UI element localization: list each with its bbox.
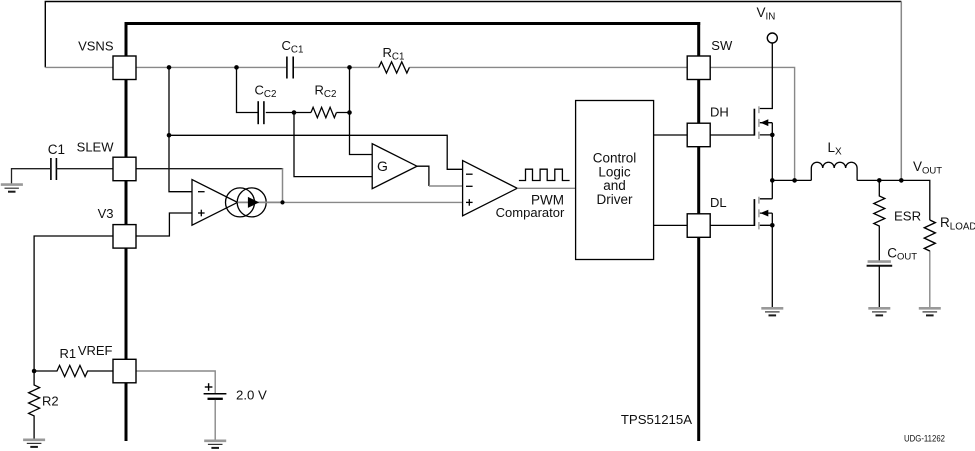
resistor ESR xyxy=(874,180,885,261)
wire DL pin to Q2 gate xyxy=(710,224,754,226)
node switch node SW junction xyxy=(770,178,775,183)
capacitor COUT xyxy=(867,262,893,266)
wire Q2 source to ground xyxy=(771,225,773,307)
capacitor CC2 xyxy=(258,101,264,124)
svg-text:SLEW: SLEW xyxy=(77,139,115,154)
wire SW pin to switch node xyxy=(710,67,794,180)
svg-text:UDG-11262: UDG-11262 xyxy=(904,434,945,444)
node VOUT sense junction xyxy=(899,178,904,183)
wire Q1 source to switch node xyxy=(771,135,773,181)
node CC1-RC1 junction xyxy=(347,65,352,70)
wire control logic to DH pin xyxy=(654,134,688,136)
terminal VIN xyxy=(767,33,777,43)
resistor R2 xyxy=(29,371,40,439)
IC TPS51215A boundary left edge xyxy=(125,22,128,441)
svg-text:DL: DL xyxy=(710,195,727,210)
wire control logic to DL pin xyxy=(654,224,688,226)
capacitor CC1 xyxy=(287,57,293,79)
wire comparator output to control logic xyxy=(517,187,575,189)
node feedback line junction xyxy=(167,133,172,138)
wire VIN to Q1 drain xyxy=(760,43,773,108)
svg-text:Driver: Driver xyxy=(597,192,634,207)
svg-text:R2: R2 xyxy=(42,393,59,408)
svg-text:C1: C1 xyxy=(48,142,65,157)
wire G output to comparator second minus input xyxy=(417,166,429,186)
node Q1 source-body junction xyxy=(770,133,775,138)
wire V3 to R1 R2 divider xyxy=(34,236,113,371)
wire VREF to 2.0V reference xyxy=(136,371,215,393)
ground under battery xyxy=(204,441,226,448)
node RC2-CC1 junction xyxy=(347,110,352,115)
pin VSNS xyxy=(113,56,136,80)
capacitor C1 xyxy=(51,158,57,180)
wire feedback to PWM comparator minus input xyxy=(169,135,463,169)
wire RC1 to SW pin xyxy=(409,66,687,68)
node CC2 branch junction B xyxy=(234,65,239,70)
pin VREF xyxy=(113,359,136,383)
svg-text:DH: DH xyxy=(710,105,729,120)
svg-text:VREF: VREF xyxy=(78,343,113,358)
pin DL xyxy=(687,214,710,238)
transistor Q2 low-side MOSFET xyxy=(754,197,772,230)
svg-text:VSNS: VSNS xyxy=(78,38,114,53)
svg-text:V3: V3 xyxy=(98,206,114,221)
ground under RLOAD xyxy=(919,308,941,315)
ground under R2 xyxy=(23,440,45,447)
IC TPS51215A boundary top edge xyxy=(125,22,701,25)
op-amp gm error amplifier xyxy=(192,180,238,226)
svg-text:and: and xyxy=(603,178,626,193)
wire VOUT sense vertical right xyxy=(900,2,902,181)
control logic block U1 xyxy=(576,101,654,260)
wire VSNS input from loop xyxy=(45,66,113,68)
wire CC1 to RC1 xyxy=(294,66,380,68)
ground under C1 xyxy=(1,185,23,192)
wire V3 to gm amp plus input xyxy=(136,213,192,236)
transistor Q1 high-side MOSFET xyxy=(754,106,772,139)
node CC2-RC2 junction xyxy=(292,110,297,115)
svg-text:Control: Control xyxy=(593,151,637,166)
node SW pin wire junction xyxy=(792,178,797,183)
op-amp U-PWM comparator xyxy=(463,161,518,216)
wire DH pin to Q1 gate xyxy=(710,134,754,136)
wire Q2 drain to switch node xyxy=(771,180,773,198)
wire CC2 branch down xyxy=(237,67,259,112)
wire switch node row xyxy=(772,179,811,181)
op-amp G gain block xyxy=(372,144,417,189)
inductor LX xyxy=(811,162,857,180)
node VOUT ESR branch junction xyxy=(877,178,882,183)
node R1-R2 divider junction xyxy=(32,369,37,374)
svg-text:Comparator: Comparator xyxy=(496,205,565,220)
svg-text:2.0 V: 2.0 V xyxy=(236,388,267,403)
node ramp junction xyxy=(280,200,284,204)
wire inductor to output node xyxy=(857,180,930,220)
wire CC2 to RC2 xyxy=(266,112,311,114)
IC TPS51215A boundary right edge xyxy=(697,22,700,441)
resistor RLOAD xyxy=(924,220,935,308)
resistor RC1 xyxy=(379,62,410,73)
svg-text:SW: SW xyxy=(711,38,733,53)
wire C1 to SLEW pin xyxy=(12,169,114,184)
wire VSNS row to compensation network xyxy=(136,66,286,68)
wire VSNS branch down to feedback line xyxy=(169,67,192,191)
svg-text:ESR: ESR xyxy=(894,209,921,224)
svg-text:TPS51215A: TPS51215A xyxy=(621,412,692,427)
node PWM square wave symbol xyxy=(519,169,570,180)
wire CC2-RC2 node down to G lower input xyxy=(294,113,372,177)
wire RC2 to CC1 junction vertical xyxy=(337,67,373,154)
ground under COUT xyxy=(868,308,890,315)
resistor RC2 xyxy=(311,107,336,117)
wire COUT to ground xyxy=(878,266,880,308)
pin SLEW xyxy=(113,157,136,181)
pin DH xyxy=(687,123,710,147)
ground under Q2 xyxy=(761,308,783,315)
pin SW xyxy=(687,56,710,80)
svg-text:Logic: Logic xyxy=(598,164,631,179)
svg-text:G: G xyxy=(377,158,388,174)
node VSNS feedback junction A xyxy=(167,65,172,70)
battery V1 2.0V xyxy=(204,383,227,399)
svg-text:R1: R1 xyxy=(60,346,77,361)
node Q2 source-body junction xyxy=(770,223,775,228)
wire ramp node to PWM comparator plus input xyxy=(283,201,463,203)
wire outer top feedback loop xyxy=(45,2,901,68)
pin V3 xyxy=(113,225,136,249)
wire battery to ground xyxy=(214,400,216,440)
wire SLEW to ramp node xyxy=(136,168,283,170)
current source symbol of gm amp xyxy=(226,188,267,217)
resistor R1 xyxy=(34,365,113,376)
